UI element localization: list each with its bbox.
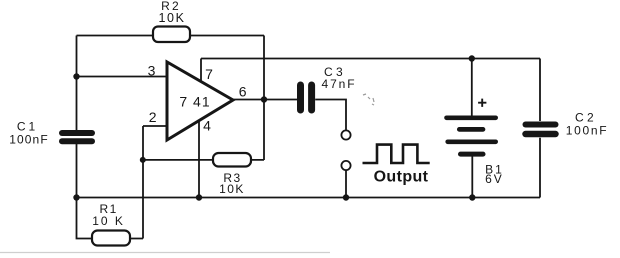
svg-text:3: 3	[148, 63, 156, 79]
svg-text:6: 6	[239, 84, 247, 100]
node: pin3 / C1 junction	[73, 73, 79, 79]
node: battery / V+ rail junction	[469, 55, 475, 61]
svg-text:100nF: 100nF	[566, 124, 609, 138]
svg-text:2: 2	[149, 109, 157, 125]
output terminal (bottom circle)	[341, 161, 350, 170]
svg-text:4: 4	[203, 118, 211, 134]
output terminal (top circle)	[341, 130, 350, 139]
node: battery / ground rail junction	[469, 194, 475, 200]
wire: R2 top feedback wire	[77, 35, 265, 37]
node: output / ground rail junction	[343, 194, 349, 200]
wire: pin 2 input wire	[143, 125, 167, 127]
battery B1	[447, 118, 496, 154]
node: pin 4 / ground rail junction	[196, 194, 202, 200]
capacitor C3	[301, 85, 312, 110]
svg-text:100nF: 100nF	[9, 133, 49, 147]
wire: bottom terminal to ground rail	[345, 170, 347, 197]
wire: R3 horizontal wire	[143, 159, 264, 161]
wire: C2 branch vertical	[539, 59, 541, 198]
wire: R1 loop (left and bottom)	[77, 198, 144, 239]
node: C1 / ground rail junction	[73, 194, 79, 200]
wire: ground rail	[77, 197, 541, 199]
svg-text:6V: 6V	[485, 172, 504, 186]
capacitor C2	[526, 125, 556, 135]
resistor R3	[213, 153, 251, 167]
wire: battery top lead	[471, 59, 473, 116]
wire: battery bottom lead	[471, 157, 473, 198]
svg-text:C2: C2	[575, 110, 597, 124]
svg-text:47nF: 47nF	[322, 77, 357, 91]
wire: left vertical branch (C1)	[76, 36, 78, 198]
square wave symbol	[363, 145, 430, 163]
svg-text:7 41: 7 41	[179, 94, 210, 110]
label + (battery positive)	[478, 99, 486, 107]
svg-text:Output: Output	[374, 169, 429, 186]
resistor R1	[92, 231, 130, 246]
wire: pin 7 to V+ rail	[200, 59, 202, 83]
svg-text:10K: 10K	[219, 182, 245, 196]
capacitor C1	[62, 133, 92, 141]
svg-text:7: 7	[205, 66, 213, 82]
wire: C3 to output terminal	[315, 100, 346, 131]
wire: pin 4 down to ground rail	[198, 121, 200, 198]
wire: V+ rail from pin 7 to battery and C2	[201, 58, 540, 60]
svg-text:C1: C1	[17, 120, 38, 134]
wire: right vertical (R2/R3 to output node)	[263, 36, 265, 161]
op-amp U1 (741)	[167, 62, 233, 140]
svg-text:10 K: 10 K	[92, 214, 125, 228]
node: pin2 / R1 / R3 junction	[140, 157, 146, 163]
node: output junction at pin 6	[261, 96, 267, 102]
resistor R2	[153, 27, 190, 43]
wire: pin 6 output wire to C3	[233, 99, 297, 101]
wire: pin 3 input wire	[77, 76, 168, 78]
svg-text:10K: 10K	[158, 11, 185, 25]
wire: pin 2 vertical down to R1	[142, 126, 144, 239]
